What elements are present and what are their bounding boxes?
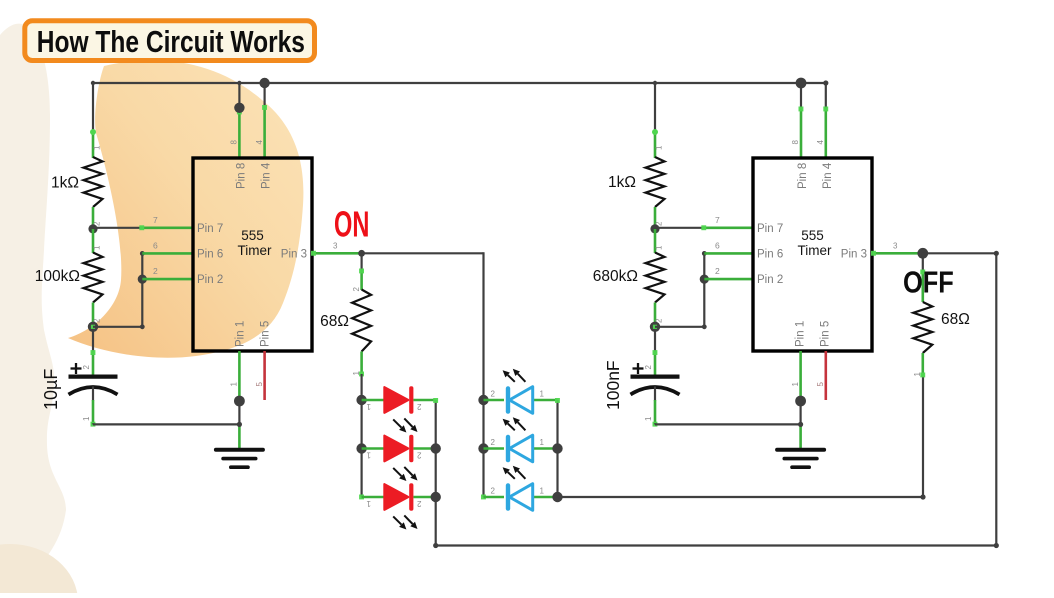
wire R2 bottom node to pin6/2 net: [93, 326, 142, 328]
resistor R1 1kΩ (left): [51, 129, 102, 229]
svg-text:Pin 3: Pin 3: [841, 249, 867, 261]
node junction pin 8 (left): [234, 103, 244, 113]
svg-text:Pin 6: Pin 6: [757, 249, 783, 261]
wire top power rail: [91, 81, 826, 85]
wire pin6/pin2 vertical net (right): [702, 251, 707, 329]
node junction pin 1 (right): [795, 396, 806, 407]
LED D5 blue: [484, 417, 558, 462]
svg-text:1: 1: [913, 371, 922, 376]
svg-text:2: 2: [715, 266, 720, 276]
wire blue LED right bus: [555, 398, 560, 498]
node junction red cathode row3: [431, 492, 441, 502]
svg-text:1: 1: [93, 145, 102, 150]
svg-text:2: 2: [491, 438, 496, 447]
wire C2 bottom to ground net: [655, 423, 801, 424]
title "How The Circuit Works": [25, 21, 315, 61]
wire pin 8 (left): [230, 81, 242, 158]
svg-text:1: 1: [366, 499, 371, 508]
wire pin 3 output (right): [871, 241, 923, 255]
wire pin 3 output (left): [311, 241, 362, 255]
node junction pin 2 (left): [138, 275, 147, 284]
node junction R2/C1/pin2 net: [88, 322, 98, 332]
svg-text:1: 1: [352, 370, 361, 375]
svg-text:680kΩ: 680kΩ: [593, 268, 638, 285]
node junction blue row2 left: [478, 443, 488, 453]
node junction red bus bottom corner: [433, 543, 438, 548]
ground (right): [777, 450, 824, 467]
svg-text:555: 555: [241, 228, 264, 243]
svg-text:3: 3: [893, 241, 898, 250]
node B: OFF node junction: [917, 248, 928, 259]
svg-text:5: 5: [255, 381, 264, 386]
svg-text:Pin 4: Pin 4: [261, 162, 273, 189]
node junction blue row3 right: [552, 492, 562, 502]
node junction between R1 and R2: [88, 224, 97, 233]
svg-text:1: 1: [93, 245, 102, 250]
svg-text:Pin 5: Pin 5: [820, 321, 832, 347]
wire pin 8 (right): [791, 83, 803, 158]
wire ON node to blue LED bus: [362, 252, 484, 254]
svg-text:1kΩ: 1kΩ: [51, 175, 79, 192]
svg-text:1: 1: [540, 438, 545, 447]
LED D3 red: [362, 483, 436, 529]
node terminal blue row3 left: [481, 495, 486, 500]
svg-text:2: 2: [417, 402, 422, 411]
svg-text:100kΩ: 100kΩ: [35, 268, 80, 285]
LED D6 blue: [484, 466, 558, 511]
svg-text:68Ω: 68Ω: [320, 313, 349, 330]
wire pin 5 stub (left): [255, 351, 265, 400]
svg-text:7: 7: [153, 215, 158, 225]
wire pin 7 (left): [93, 215, 193, 230]
svg-text:2: 2: [417, 451, 422, 460]
wire pin 2 (left): [142, 266, 193, 279]
wire OFF node to right edge: [923, 251, 999, 256]
wire pin 1 (right): [791, 351, 801, 450]
wire pin6/pin2 vertical net (left): [140, 251, 145, 329]
svg-text:8: 8: [791, 139, 800, 144]
resistor R3 68Ω (left): [320, 253, 371, 376]
svg-text:1kΩ: 1kΩ: [608, 174, 636, 191]
node junction red anode row1: [356, 395, 366, 405]
svg-text:Pin 8: Pin 8: [235, 163, 247, 189]
svg-text:Pin 7: Pin 7: [757, 223, 783, 235]
svg-text:Pin 6: Pin 6: [197, 249, 223, 261]
wire pin 5 stub (right): [816, 351, 826, 400]
wire pin 6 (left): [142, 241, 193, 254]
svg-text:2: 2: [82, 364, 91, 369]
op-amp U2 555 timer (right): [753, 158, 872, 351]
svg-text:ON: ON: [334, 205, 369, 245]
svg-text:2: 2: [417, 499, 422, 508]
svg-text:1: 1: [655, 145, 664, 150]
svg-text:2: 2: [644, 364, 653, 369]
node A: ON node junction: [358, 250, 365, 257]
svg-text:OFF: OFF: [903, 265, 954, 300]
svg-text:2: 2: [491, 487, 496, 496]
wire pin 4 (left): [255, 83, 267, 158]
wire pin 7 (right): [655, 215, 753, 230]
resistor R4 1kΩ (right): [608, 129, 664, 229]
wire pin 1 (left): [230, 351, 240, 450]
svg-text:4: 4: [816, 139, 825, 144]
node terminal red anode row3: [359, 495, 364, 500]
svg-text:1: 1: [655, 245, 664, 250]
svg-text:100nF: 100nF: [603, 360, 623, 410]
svg-text:8: 8: [230, 139, 239, 144]
svg-text:6: 6: [715, 241, 720, 251]
wire blue bus to OFF resistor: [558, 375, 926, 500]
LED D2 red: [362, 435, 436, 481]
svg-text:1: 1: [644, 416, 653, 421]
node junction pin 2 (right): [700, 275, 709, 284]
svg-text:Pin 3: Pin 3: [281, 249, 307, 261]
svg-text:1: 1: [230, 381, 239, 386]
svg-text:Pin 2: Pin 2: [757, 274, 783, 286]
svg-text:1: 1: [540, 390, 545, 399]
svg-text:Pin 1: Pin 1: [795, 321, 807, 347]
svg-text:2: 2: [153, 266, 158, 276]
wire red LED cathode bus: [433, 398, 438, 546]
svg-text:1: 1: [366, 402, 371, 411]
svg-text:1: 1: [540, 487, 545, 496]
wire pin 4 (right): [816, 80, 828, 158]
node junction red cathode row2: [431, 443, 441, 453]
wire R5 bottom node to pin6/2 net (right): [655, 326, 704, 328]
svg-text:How The Circuit Works: How The Circuit Works: [37, 24, 305, 58]
node junction pin 8 at rail (right): [796, 78, 807, 89]
svg-text:2: 2: [352, 286, 361, 291]
svg-text:Pin 1: Pin 1: [235, 321, 247, 347]
svg-text:Timer: Timer: [238, 243, 272, 258]
node junction red anode row2: [356, 443, 366, 453]
wire pin 6 (right): [704, 241, 753, 254]
svg-text:2: 2: [491, 390, 496, 399]
ground (left): [216, 450, 263, 467]
resistor R2 100kΩ (left): [35, 229, 103, 327]
svg-text:6: 6: [153, 241, 158, 251]
svg-text:1: 1: [366, 451, 371, 460]
node junction blue row1 left: [478, 395, 488, 405]
wire pin 2 (right): [704, 266, 753, 279]
op-amp U1 555 timer (left): [193, 158, 312, 351]
svg-text:5: 5: [816, 381, 825, 386]
svg-text:Pin 7: Pin 7: [197, 223, 223, 235]
svg-text:1: 1: [82, 416, 91, 421]
node junction blue row2 right: [552, 443, 562, 453]
node junction R5/C2/pin2 net: [650, 322, 660, 332]
LED D4 blue: [484, 369, 558, 414]
wire C1 bottom to ground net: [93, 423, 239, 424]
wire from rail to resistor R1: [92, 82, 94, 132]
svg-text:4: 4: [255, 139, 264, 144]
capacitor 100nF: [603, 331, 680, 427]
svg-text:1: 1: [791, 381, 800, 386]
LED D1 red: [362, 386, 436, 432]
node junction pin 4 at rail (left): [259, 78, 269, 88]
node junction between R4 and R5: [650, 224, 659, 233]
wire blue LED left bus: [482, 252, 484, 497]
wire from rail to resistor R4: [653, 81, 657, 132]
svg-text:Pin 5: Pin 5: [260, 321, 272, 347]
svg-text:68Ω: 68Ω: [941, 311, 970, 328]
svg-text:7: 7: [715, 215, 720, 225]
node junction pin 1 (left): [234, 396, 245, 407]
svg-text:555: 555: [801, 228, 824, 243]
svg-text:Pin 2: Pin 2: [197, 274, 223, 286]
node junction ground net (left): [237, 422, 242, 427]
node junction ground net (right): [798, 422, 803, 427]
wire bottom return to right circuit: [436, 544, 997, 546]
capacitor 10µF: [41, 331, 118, 427]
svg-text:Pin 4: Pin 4: [822, 162, 834, 189]
svg-text:Timer: Timer: [798, 243, 832, 258]
wire red LED anode bus: [361, 374, 363, 497]
resistor R6 68Ω (right): [913, 253, 970, 377]
svg-text:10µF: 10µF: [41, 369, 61, 410]
svg-text:Pin 8: Pin 8: [797, 163, 809, 189]
wire right edge return: [994, 253, 999, 548]
resistor R5 680kΩ (right): [593, 229, 665, 327]
